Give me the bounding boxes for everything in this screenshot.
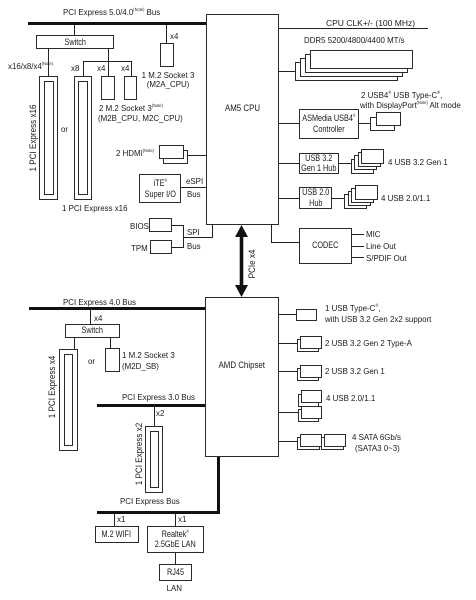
wire: CPU to CODEC stub down [271,224,272,242]
label: DDR5 [304,35,405,45]
box: M2D socket [105,348,120,372]
box: CODEC [299,228,353,264]
label: 1 PCI Express x4 (rotated) [47,356,57,419]
label: LAN [159,583,190,593]
wire: PCIe 3.0 bus thick [97,404,205,407]
label: 4 SATA 6Gb/s [352,432,401,442]
wire: chipset to SATA [279,441,298,442]
label: x1 (wifi) [117,514,125,524]
label: 1 USB Type-C [325,303,381,313]
box: USB 3.2 Gen 1 Hub [299,153,339,174]
label x16/x8/x4 [8,61,53,71]
label: (M2A_CPU) [140,79,196,89]
slot: PCI Express x4 outer [59,349,78,451]
label: Bus (SPI) [187,241,201,251]
box: BIOS [149,218,172,232]
box: SATA left front [300,434,323,447]
label: eSPI [186,176,203,186]
switch (top) [36,35,114,50]
box: USB4 port back [370,117,395,131]
label: PCI Express 4.0 Bus [63,297,136,307]
label: 1 PCI Express x16 (bottom) [62,203,127,213]
wire: hub to ports [332,198,345,199]
wire: switch to x16 slot [48,48,49,76]
label x8 [71,63,79,73]
wire: Line Out line [352,246,364,247]
box: USB3.2 port 4 [351,159,374,174]
wire: CPU to ASMedia [278,123,299,124]
box: USB3.2 port 1 [361,149,384,164]
box: DIMM 3 [300,58,403,77]
wire: stub to M.2 WIFI [114,513,115,526]
box: M.2 WIFI [95,526,139,543]
label: 1 PCI Express x16 (rotated) [28,104,38,171]
box: RJ45 [159,564,192,581]
wire: switch2 to M2D [110,337,111,348]
label: PCIe x4 (rotated) [247,250,257,279]
wire: CPU to USB3.2 hub [278,163,299,164]
box: Realtek 2.5GbE LAN [147,526,204,553]
label: x2 [156,408,164,418]
label: PCI Express Bus [120,496,180,506]
wire: eSPI line [181,187,206,188]
label: BIOS [130,221,149,231]
wire: SPI horizontal [183,237,213,238]
wire: switch2 to x4 slot [74,337,75,349]
wire: SPI to CPU stub [212,224,213,237]
label: 1 PCI Express x2 (rotated) [134,423,144,486]
label: 4 USB 3.2 Gen 1 [388,157,448,167]
wire: bus to switch2 [90,309,91,324]
box: G1 port front [300,365,322,378]
box: HDMI back [163,150,188,164]
label: Bus (eSPI) [187,189,201,199]
box: USB2 chip port lower front [301,406,322,419]
wire: ASMedia to ports [359,123,370,124]
label: Line Out [366,241,396,251]
label x4 (M2C) [121,63,129,73]
label: x4 (switch) [94,313,102,323]
wire: bus to switch [74,25,75,35]
box: iTE Super I/O [139,174,181,203]
label x4 (M2A) [170,31,178,41]
wire: stub to Realtek [175,513,176,526]
wire: stub to M2C [131,61,132,76]
box: USB4 port front [376,112,401,126]
box: SATA left back [297,437,320,450]
wire: PCI Express bus thick [97,511,220,514]
label: (M2B_CPU, M2C_CPU) [98,113,183,123]
switch (bottom) [65,324,120,338]
wire: chipset to USB-C [279,314,297,315]
wire: bus to M2A [166,25,167,43]
label: (M2D_SB) [122,361,159,371]
wire: chipset to USB 3.2 Gen2 [279,343,298,344]
box: G2 port front [300,336,322,349]
wire: branch horizontal [83,61,132,62]
chip: AMD Chipset [205,297,279,457]
wire: S/PDIF line [352,257,364,258]
box: M2B socket [101,76,115,100]
wire: CPU to CODEC horizontal [271,242,299,243]
box: G1 port back [297,368,319,381]
chip: AM5 CPU [206,14,279,225]
box: USB2 port 3 [348,191,371,206]
box: USB2 port 2 [351,188,374,203]
wire: Realtek to RJ45 [175,553,176,565]
wire: PCIe 5.0 bus thick line [28,22,206,25]
wire: switch right branch down [108,48,109,76]
box: DIMM 2 [305,54,408,73]
label: (SATA3 0~3) [355,443,400,453]
box: DIMM 1 [310,50,413,69]
box: G2 port back [297,339,319,352]
wire: bus to x2 slot [154,407,155,426]
wire: chipset down thick [217,457,220,514]
label: or (bottom) [88,356,95,366]
label: S/PDIF Out [366,253,406,263]
box: DIMM 4 [295,62,398,81]
slot: PCI Express x2 outer [145,426,163,493]
box: TPM [150,240,173,254]
box: M2A socket [160,43,174,67]
slot: PCI Express x8 inner [78,81,88,195]
label: SPI [187,227,200,237]
wire: chipset to USB 3.2 Gen1 [279,371,298,372]
label: or [61,124,68,134]
label: x1 (lan) [178,514,186,524]
arrow: PCIe x4 double arrow [232,224,252,298]
label: MIC [366,229,381,239]
box: M2C socket [124,76,138,100]
box: USB2 chip port upper back [298,394,319,407]
label: 2 M.2 Socket 3 [99,103,163,113]
wire: PCIe 4.0 bus thick [29,307,205,310]
label: 1 M.2 Socket 3 (M2D) [122,350,175,360]
wire: CPU CLK line [278,28,428,29]
wire: CPU to DDR5 [278,71,296,72]
wire: BIOS stub [172,225,183,226]
box: ASMedia USB4 Controller [299,109,359,139]
label: TPM [131,243,148,253]
label: 4 USB 2.0/1.1 [381,193,430,203]
wire: chipset to USB 2.0 [279,412,299,413]
label: PCI Express 3.0 Bus [122,392,195,402]
box: USB2 port 4 [344,194,367,209]
label: 2 HDMI [116,148,154,158]
wire: MIC line [352,234,364,235]
slot: PCI Express x4 inner [64,354,74,446]
wire: stub to x8 slot [83,61,84,76]
label: 4 USB 2.0/1.1 (chipset) [326,393,375,403]
box: USB2 chip port upper front [301,390,322,403]
label: 2 USB4 USB Type-C [361,90,442,100]
bus label: PCI Express 5.0/4.0 Bus [63,7,160,17]
slot: PCI Express x16 (left) inner [44,81,54,195]
box: USB Type-C port [296,309,317,322]
slot: PCI Express x2 inner [150,431,159,488]
box: USB2 chip port lower back [298,409,319,422]
label: 2 USB 3.2 Gen 1 [325,366,385,376]
label: 1 M.2 Socket 3 [140,70,196,80]
box: USB2 port 1 [355,185,378,200]
wire: hub to ports [339,163,352,164]
box: USB3.2 port 3 [354,155,377,170]
wire: SPI vertical [183,225,184,248]
slot: PCI Express x16 (left) outer [39,76,58,200]
box: HDMI front [159,145,184,159]
box: SATA right front [324,434,347,447]
box: USB3.2 port 2 [358,152,381,167]
label: CPU CLK [326,18,415,28]
wire: HDMI to CPU [188,155,207,156]
label: 2 USB 3.2 Gen 2 Type-A [325,338,412,348]
box: SATA right back [321,437,344,450]
box: USB 2.0 Hub [299,187,332,209]
wire: CPU to USB2 hub [278,198,299,199]
label x4 (M2B) [97,63,105,73]
slot: PCI Express x8 outer [74,76,92,200]
wire: TPM stub [172,247,183,248]
